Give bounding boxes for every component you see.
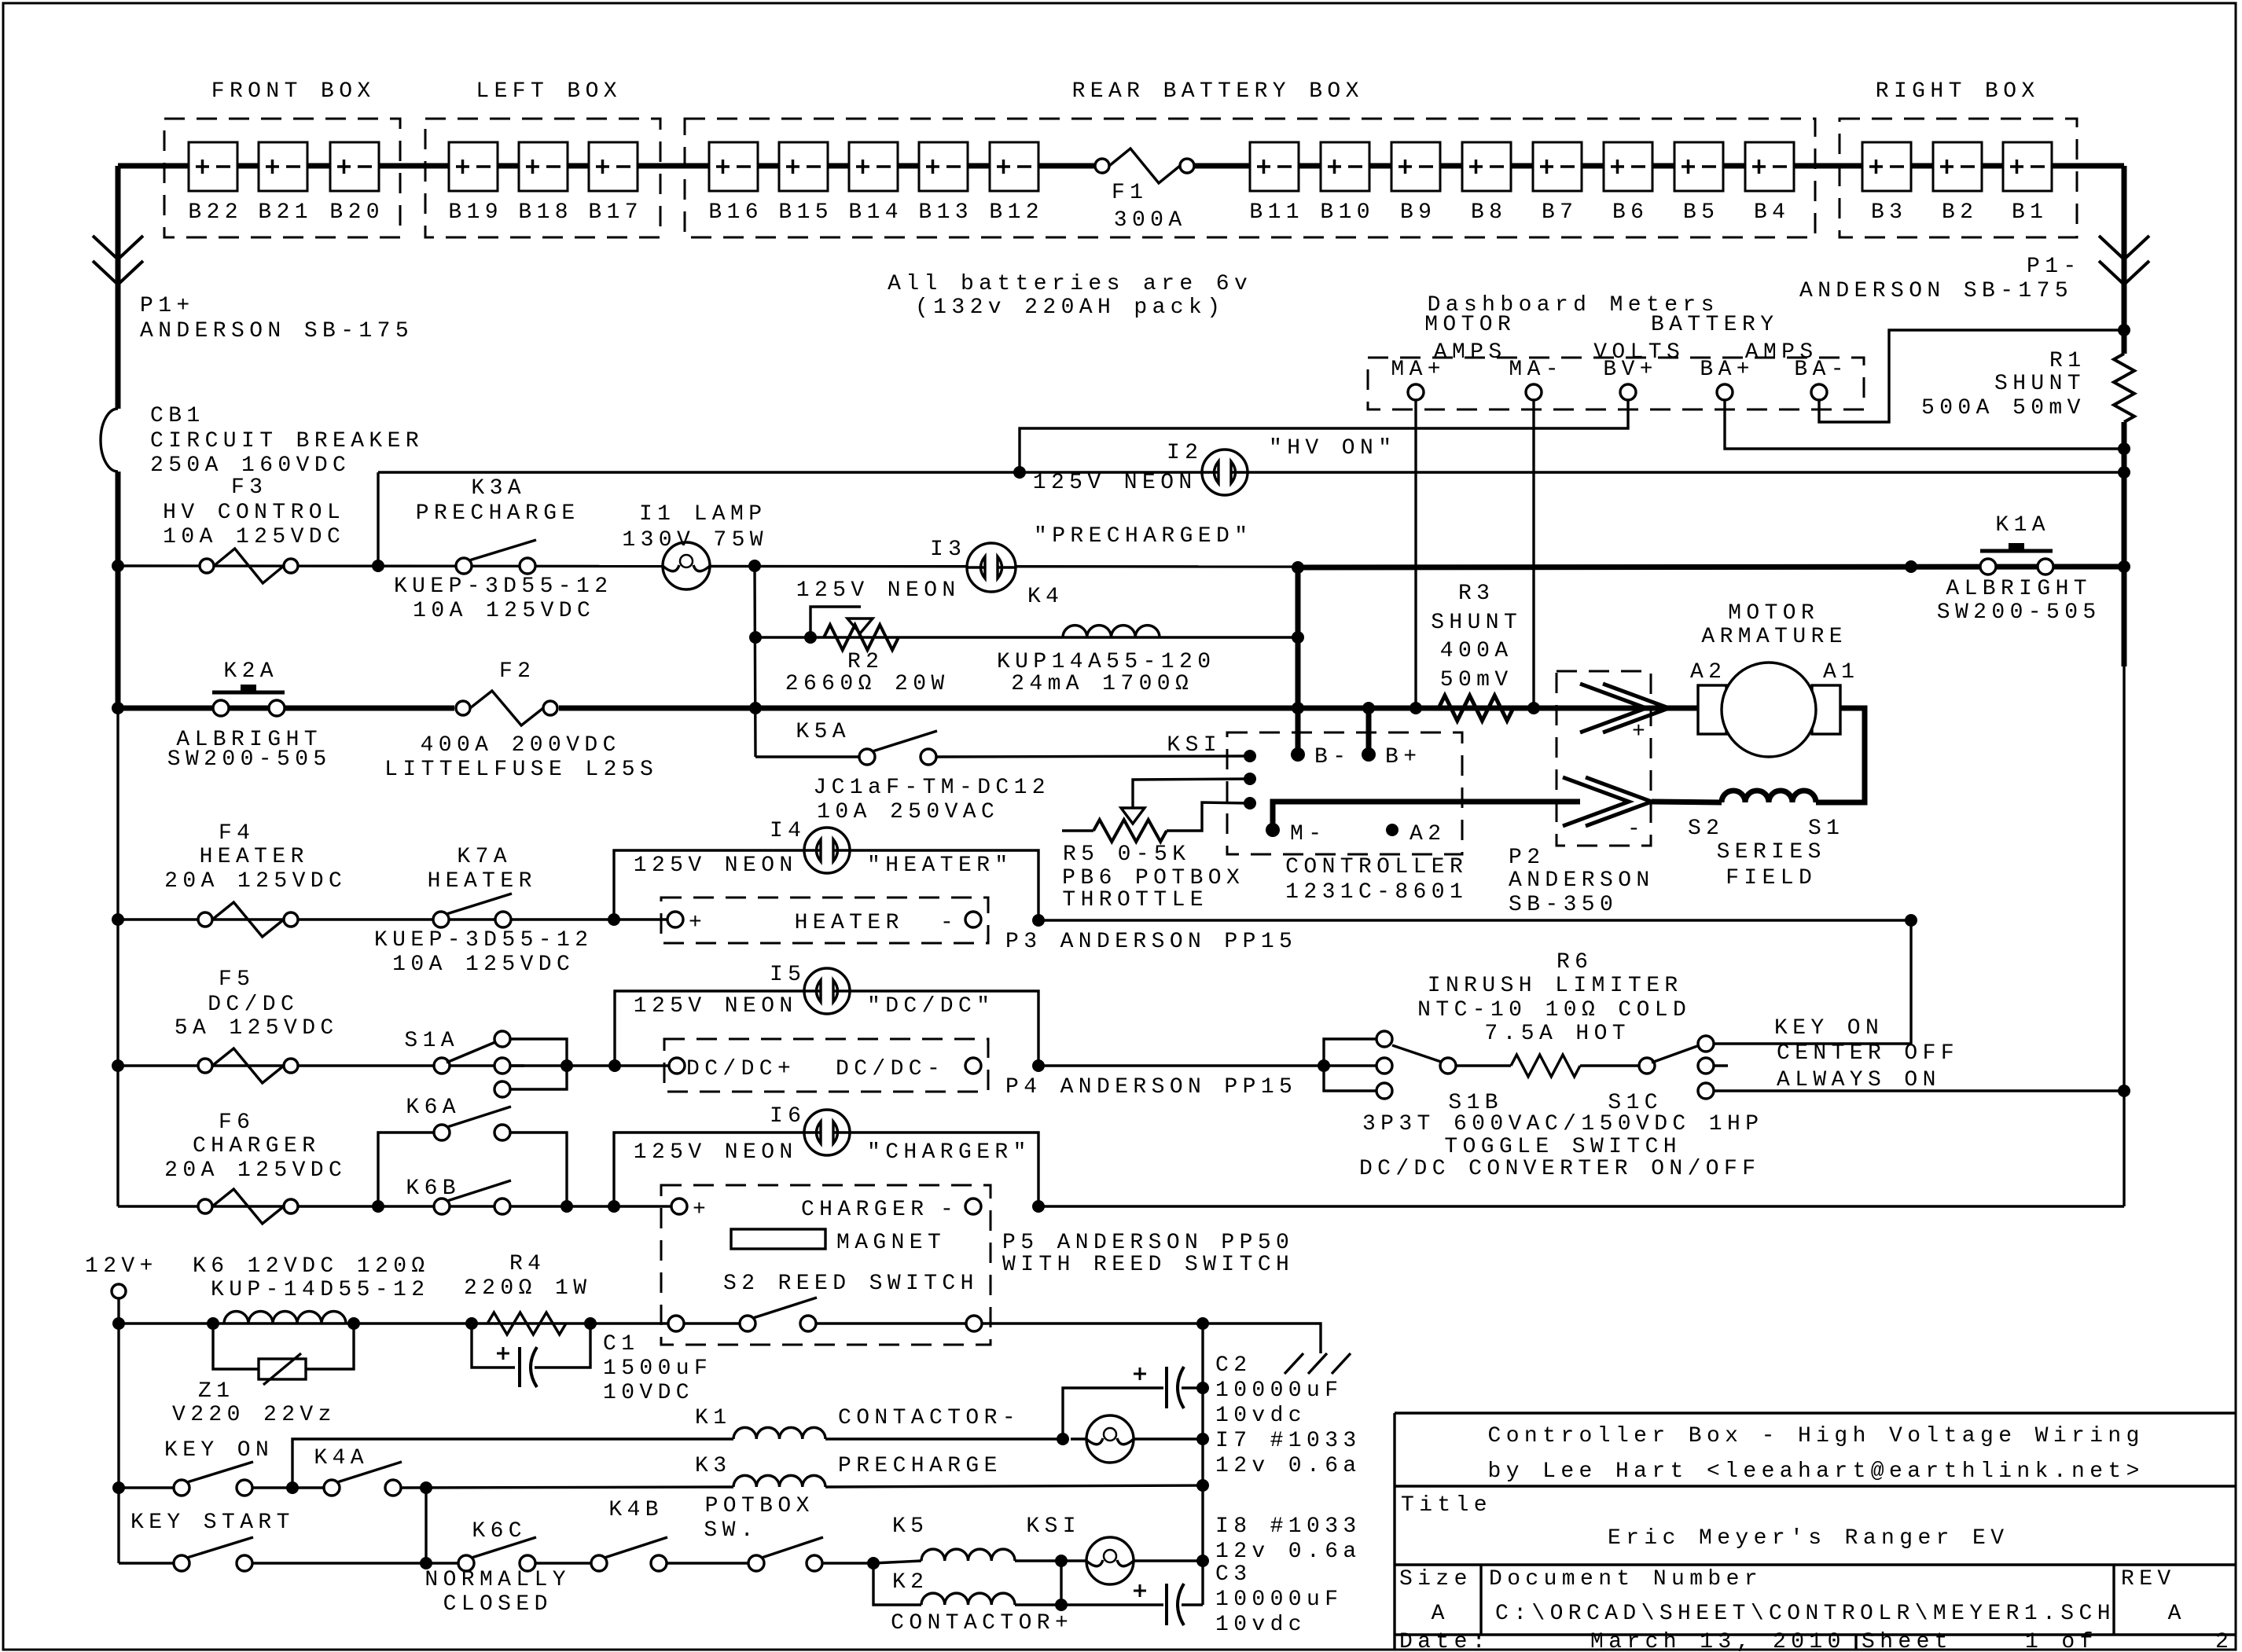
- capacitor C2 10000uF 10vdc: [1063, 1388, 1163, 1439]
- node charger return junction: [1032, 1200, 1045, 1213]
- svg-text:12v 0.6a: 12v 0.6a: [1215, 1540, 1362, 1564]
- node C2 branch junction: [1057, 1433, 1069, 1445]
- svg-text:S1: S1: [1808, 817, 1844, 841]
- svg-text:I1 LAMP: I1 LAMP: [639, 502, 766, 527]
- svg-text:JC1aF-TM-DC12: JC1aF-TM-DC12: [813, 776, 1050, 800]
- wire always-on feed: [1714, 1089, 2124, 1092]
- wire I5 neon loop: [615, 991, 1038, 1066]
- wire dcdc return to S1B: [1038, 1064, 1324, 1066]
- svg-text:2660Ω 20W: 2660Ω 20W: [785, 672, 950, 696]
- potentiometer R5 0-5K PB6 POTBOX THROTTLE: [1062, 829, 1093, 832]
- switch POTBOX SW.: [748, 1555, 764, 1571]
- dashed box FRONT BOX: [164, 119, 400, 237]
- svg-text:KUEP-3D55-12: KUEP-3D55-12: [374, 928, 593, 953]
- switch K4B: [591, 1555, 607, 1571]
- svg-text:B16: B16: [708, 200, 763, 225]
- svg-text:HEATER: HEATER: [200, 845, 309, 869]
- svg-text:-: -: [1627, 817, 1645, 842]
- svg-text:CHARGER: CHARGER: [801, 1198, 928, 1222]
- battery B3: [1862, 142, 1911, 191]
- magnet rectangle: [731, 1229, 825, 1249]
- switch S1C: [1652, 1045, 1700, 1063]
- node charger neon branch: [608, 1200, 620, 1213]
- terminal KSI pin: [1244, 750, 1256, 762]
- svg-text:K3: K3: [695, 1454, 731, 1478]
- svg-text:CENTER OFF: CENTER OFF: [1777, 1041, 1959, 1066]
- node B- crossing: [1292, 702, 1304, 714]
- lamp I7 #1033 12v 0.6a: [1071, 1437, 1086, 1440]
- node main row riser junction: [749, 702, 762, 714]
- svg-text:WITH REED SWITCH: WITH REED SWITCH: [1002, 1253, 1294, 1277]
- node K1A right bus junction: [2118, 560, 2130, 573]
- switch K4A: [324, 1480, 340, 1496]
- battery B8: [1462, 142, 1511, 191]
- node K4 row left junction: [749, 631, 762, 644]
- svg-text:B14: B14: [848, 200, 903, 225]
- svg-text:MOTOR: MOTOR: [1424, 313, 1516, 337]
- svg-text:RIGHT BOX: RIGHT BOX: [1876, 79, 2040, 104]
- svg-text:12v 0.6a: 12v 0.6a: [1215, 1454, 1362, 1478]
- switch K7A HEATER KUEP-3D55-12: [433, 912, 449, 927]
- ground symbol: [1285, 1353, 1303, 1374]
- svg-text:10A 125VDC: 10A 125VDC: [163, 525, 345, 549]
- switch K5A JC1aF-TM-DC12: [859, 749, 875, 765]
- svg-text:DC/DC-: DC/DC-: [836, 1057, 945, 1081]
- node K6 parallel junction: [560, 1200, 573, 1213]
- svg-text:I2: I2: [1167, 441, 1203, 465]
- svg-text:BA+: BA+: [1700, 358, 1755, 382]
- neon lamp I6 125V NEON: [804, 1110, 850, 1155]
- svg-text:B2: B2: [1942, 200, 1978, 225]
- svg-text:B12: B12: [989, 200, 1044, 225]
- terminal charger +: [671, 1199, 687, 1214]
- svg-text:R5 0-5K: R5 0-5K: [1063, 843, 1190, 867]
- svg-text:Date:: Date:: [1399, 1630, 1490, 1652]
- battery B20: [330, 142, 379, 191]
- svg-text:Sheet: Sheet: [1862, 1630, 1953, 1652]
- svg-text:K5A: K5A: [796, 720, 851, 744]
- wire I4 neon loop: [614, 850, 1038, 920]
- battery B5: [1674, 142, 1723, 191]
- svg-text:400A: 400A: [1440, 639, 1513, 663]
- svg-text:I7 #1033: I7 #1033: [1215, 1429, 1362, 1453]
- svg-text:2: 2: [2215, 1630, 2233, 1652]
- terminal charger -: [965, 1199, 981, 1214]
- wire heater row: [118, 918, 675, 920]
- wire main traction row: [118, 706, 1698, 711]
- svg-text:A2: A2: [1410, 822, 1446, 846]
- wire K4 row: [755, 636, 1298, 638]
- wire BA+ to R1 bottom: [1725, 400, 2124, 449]
- wire right bus vertical (thick): [2122, 166, 2127, 354]
- title block frame: [1395, 1412, 2236, 1414]
- svg-text:10VDC: 10VDC: [603, 1381, 694, 1405]
- svg-text:K2A: K2A: [223, 659, 278, 684]
- svg-text:ANDERSON SB-175: ANDERSON SB-175: [140, 319, 413, 343]
- battery B13: [919, 142, 968, 191]
- svg-text:B3: B3: [1871, 200, 1907, 225]
- svg-text:SW.: SW.: [704, 1518, 759, 1543]
- svg-text:SHUNT: SHUNT: [1431, 611, 1522, 635]
- svg-text:KUP-14D55-12: KUP-14D55-12: [211, 1278, 429, 1302]
- svg-text:10A 125VDC: 10A 125VDC: [392, 953, 575, 977]
- fuse F4 HEATER 20A 125VDC: [198, 912, 212, 927]
- wire left bus vertical (thin): [116, 708, 119, 1206]
- svg-text:CONTACTOR-: CONTACTOR-: [838, 1406, 1020, 1430]
- svg-text:B-: B-: [1314, 745, 1351, 769]
- node MA+ junction: [1410, 702, 1422, 714]
- svg-text:B4: B4: [1754, 200, 1790, 225]
- svg-text:KEY ON: KEY ON: [164, 1438, 274, 1463]
- svg-text:R3: R3: [1458, 582, 1494, 606]
- contactor contact K1A ALBRIGHT SW200-505: [1980, 549, 2053, 553]
- svg-text:1 of: 1 of: [2025, 1630, 2098, 1652]
- svg-text:ARMATURE: ARMATURE: [1701, 625, 1847, 649]
- svg-text:SERIES: SERIES: [1717, 840, 1826, 865]
- terminal heater +: [667, 912, 683, 927]
- lamp I1 130V 75W: [663, 542, 710, 589]
- lamp I8 #1033 12v 0.6a: [1086, 1537, 1134, 1584]
- svg-text:INRUSH LIMITER: INRUSH LIMITER: [1428, 974, 1683, 998]
- svg-text:125V NEON: 125V NEON: [634, 1140, 798, 1165]
- svg-text:B21: B21: [258, 200, 313, 225]
- svg-text:R2: R2: [847, 650, 884, 674]
- relay coil K1 CONTACTOR-: [733, 1427, 825, 1439]
- svg-text:F1: F1: [1112, 181, 1148, 205]
- contactor contact K2A ALBRIGHT SW200-505: [212, 691, 285, 695]
- svg-text:B18: B18: [518, 200, 573, 225]
- svg-text:7.5A HOT: 7.5A HOT: [1484, 1022, 1630, 1046]
- resistor R6 INRUSH LIMITER: [1440, 1058, 1456, 1074]
- svg-text:HEATER: HEATER: [428, 869, 537, 894]
- svg-text:ANDERSON SB-175: ANDERSON SB-175: [1799, 279, 2073, 303]
- node K4 row right junction: [1292, 631, 1304, 644]
- svg-text:K4A: K4A: [314, 1446, 369, 1470]
- resistor R2 rheostat 2660ohm 20W: [824, 625, 899, 650]
- svg-text:"CHARGER": "CHARGER": [867, 1140, 1031, 1165]
- svg-text:ALBRIGHT: ALBRIGHT: [1946, 577, 2092, 601]
- svg-text:MOTOR: MOTOR: [1728, 601, 1819, 626]
- svg-text:130V 75W: 130V 75W: [622, 528, 768, 553]
- svg-text:24mA 1700Ω: 24mA 1700Ω: [1011, 672, 1193, 696]
- node key start branch junction: [420, 1481, 432, 1494]
- svg-text:PB6 POTBOX: PB6 POTBOX: [1062, 866, 1244, 890]
- node reed output junction: [1196, 1317, 1209, 1330]
- terminal M- controller: [1266, 823, 1280, 837]
- svg-text:F2: F2: [499, 659, 535, 684]
- svg-text:K3A: K3A: [471, 476, 526, 501]
- svg-text:"HEATER": "HEATER": [867, 854, 1013, 878]
- dashed box dashboard meters: [1368, 358, 1864, 409]
- svg-text:K7A: K7A: [457, 845, 512, 869]
- svg-text:HEATER: HEATER: [795, 911, 904, 935]
- svg-text:Size: Size: [1399, 1567, 1472, 1591]
- wire MA- to R3 right: [1532, 400, 1534, 708]
- svg-text:C1: C1: [603, 1332, 639, 1356]
- node 12v row junction: [112, 1317, 125, 1330]
- terminal B- controller: [1291, 747, 1305, 762]
- node key-on riser top: [1905, 914, 1917, 927]
- svg-text:M-: M-: [1290, 822, 1326, 846]
- wire I6 neon loop: [614, 1133, 1038, 1206]
- node R1 bottom junctions: [2118, 442, 2130, 455]
- svg-text:I8 #1033: I8 #1033: [1215, 1514, 1362, 1539]
- wire M- thick: [1273, 802, 1580, 830]
- battery B14: [849, 142, 898, 191]
- node I8 output junction: [1196, 1555, 1209, 1567]
- wire 12v node line: [1201, 1323, 1204, 1605]
- wire heater return to key-on riser: [1038, 919, 1911, 921]
- terminal heater -: [965, 912, 981, 927]
- switch KEY ON: [112, 1481, 125, 1494]
- resistor R1 SHUNT 500A 50mV: [2114, 354, 2134, 422]
- svg-text:K6B: K6B: [406, 1177, 461, 1201]
- node dcdc return junction: [1032, 1059, 1045, 1072]
- svg-text:P3 ANDERSON PP15: P3 ANDERSON PP15: [1005, 930, 1297, 954]
- svg-text:I5: I5: [770, 963, 806, 987]
- node I1 output junction: [748, 560, 761, 572]
- svg-text:CONTROLLER: CONTROLLER: [1285, 855, 1468, 879]
- svg-text:B11: B11: [1249, 200, 1304, 225]
- node K5/K2 branch junction: [867, 1557, 880, 1569]
- svg-text:I4: I4: [770, 819, 806, 843]
- svg-text:20A 125VDC: 20A 125VDC: [164, 869, 347, 894]
- svg-text:20A 125VDC: 20A 125VDC: [164, 1158, 347, 1183]
- svg-text:B19: B19: [448, 200, 503, 225]
- wire F3 control row: [118, 566, 1298, 567]
- svg-text:I6: I6: [770, 1104, 806, 1129]
- node K1A branch junction: [1905, 560, 1917, 573]
- svg-text:All batteries are 6v: All batteries are 6v: [888, 272, 1252, 296]
- connector P1+ ANDERSON SB-175: [93, 236, 143, 259]
- svg-text:400A 200VDC: 400A 200VDC: [421, 733, 621, 758]
- battery B6: [1604, 142, 1652, 191]
- node heater return junction: [1032, 914, 1045, 927]
- svg-text:A2: A2: [1690, 660, 1726, 685]
- svg-text:DC/DC: DC/DC: [208, 993, 299, 1017]
- relay coil K4 KUP14A55-120: [1063, 626, 1160, 637]
- svg-text:F6: F6: [219, 1111, 255, 1135]
- motor armature brushes: [1698, 685, 1726, 734]
- node HV ON junction: [1013, 466, 1026, 479]
- svg-text:FRONT BOX: FRONT BOX: [211, 79, 376, 104]
- terminal 12V+: [112, 1284, 126, 1298]
- terminal DC/DC-: [965, 1058, 981, 1074]
- terminal DC/DC+: [669, 1058, 685, 1074]
- svg-text:SW200-505: SW200-505: [1937, 600, 2101, 625]
- wire K5A row: [755, 755, 867, 758]
- fuse F1 300A: [1094, 146, 1195, 185]
- svg-text:CB1: CB1: [150, 404, 205, 428]
- svg-text:3P3T 600VAC/150VDC 1HP: 3P3T 600VAC/150VDC 1HP: [1362, 1112, 1763, 1136]
- svg-text:10A 250VAC: 10A 250VAC: [817, 800, 999, 824]
- capacitor C1 1500uF 10VDC: [472, 1323, 515, 1367]
- capacitor C3 10000uF 10vdc: [1165, 1584, 1168, 1625]
- dashed box REAR BATTERY BOX: [685, 119, 1815, 237]
- svg-text:KEY ON: KEY ON: [1774, 1016, 1884, 1041]
- svg-text:NORMALLY: NORMALLY: [425, 1568, 571, 1592]
- battery B18: [519, 142, 568, 191]
- svg-text:REV: REV: [2121, 1567, 2176, 1591]
- connector P2 bottom chevron: [1563, 777, 1629, 826]
- switch S1A: [434, 1058, 450, 1074]
- relay coil K3 PRECHARGE: [733, 1475, 825, 1487]
- node K6A branch junction: [372, 1200, 384, 1213]
- battery B15: [779, 142, 828, 191]
- battery B19: [449, 142, 498, 191]
- wire to ground: [1203, 1323, 1321, 1353]
- svg-text:LITTELFUSE L25S: LITTELFUSE L25S: [384, 758, 658, 782]
- wire BV+ to HV node: [1020, 400, 1628, 472]
- svg-text:K6 12VDC 120Ω: K6 12VDC 120Ω: [193, 1254, 430, 1279]
- svg-text:F4: F4: [219, 821, 255, 846]
- svg-text:S2: S2: [1688, 817, 1724, 841]
- wire right bus vertical (thin): [2123, 666, 2125, 1206]
- switch K3A PRECHARGE: [456, 558, 472, 574]
- svg-text:A1: A1: [1823, 660, 1859, 685]
- wire battery bus top: [118, 163, 2124, 169]
- svg-text:B9: B9: [1400, 200, 1436, 225]
- node dcdc neon branch: [608, 1059, 621, 1072]
- connector P2 top chevron: [1580, 684, 1646, 732]
- wire left bus vertical (thick): [116, 166, 121, 409]
- svg-text:B15: B15: [778, 200, 833, 225]
- fuse F3 HV CONTROL 10A 125VDC: [200, 559, 214, 573]
- battery B4: [1745, 142, 1794, 191]
- svg-text:(132v 220AH pack): (132v 220AH pack): [915, 296, 1225, 320]
- svg-text:MAGNET: MAGNET: [836, 1231, 946, 1255]
- fuse F6 CHARGER 20A 125VDC: [198, 1199, 212, 1213]
- svg-text:ANDERSON: ANDERSON: [1509, 868, 1655, 893]
- svg-text:P1-: P1-: [2027, 255, 2082, 279]
- wire B- riser thick: [1296, 567, 1301, 754]
- battery B17: [589, 142, 638, 191]
- svg-text:B1: B1: [2012, 200, 2048, 225]
- svg-text:R4: R4: [509, 1252, 546, 1276]
- svg-text:by Lee Hart <leeahart@earthlin: by Lee Hart <leeahart@earthlink.net>: [1488, 1459, 2145, 1484]
- svg-text:B17: B17: [588, 200, 643, 225]
- svg-text:K4: K4: [1027, 585, 1064, 609]
- node always-on bus junction: [2118, 1085, 2130, 1097]
- svg-text:50mV: 50mV: [1440, 668, 1513, 692]
- battery B7: [1533, 142, 1582, 191]
- neon lamp I2 125V NEON: [1202, 450, 1248, 495]
- dashed box LEFT BOX: [425, 119, 660, 237]
- svg-text:C2: C2: [1215, 1353, 1251, 1378]
- svg-text:"PRECHARGED": "PRECHARGED": [1034, 524, 1252, 549]
- battery B1: [2003, 142, 2052, 191]
- svg-text:CLOSED: CLOSED: [443, 1592, 553, 1617]
- svg-text:B13: B13: [918, 200, 973, 225]
- svg-text:-: -: [940, 1198, 958, 1222]
- wire K1 coil row: [292, 1439, 733, 1488]
- svg-text:250A 160VDC: 250A 160VDC: [150, 453, 351, 478]
- svg-text:CIRCUIT BREAKER: CIRCUIT BREAKER: [150, 429, 424, 453]
- svg-text:B22: B22: [188, 200, 243, 225]
- svg-text:R6: R6: [1557, 950, 1593, 975]
- wire charger return to right bus: [1038, 1205, 2124, 1207]
- svg-text:DC/DC+: DC/DC+: [686, 1057, 796, 1081]
- svg-text:10A 125VDC: 10A 125VDC: [413, 599, 595, 623]
- svg-text:125V NEON: 125V NEON: [796, 578, 961, 603]
- svg-text:BATTERY: BATTERY: [1651, 313, 1778, 337]
- svg-text:BV+: BV+: [1603, 358, 1658, 382]
- node K5 output junction: [1055, 1555, 1068, 1567]
- wire B+ riser thick: [1366, 708, 1372, 754]
- svg-text:THROTTLE: THROTTLE: [1062, 888, 1208, 912]
- svg-text:V220 22Vz: V220 22Vz: [172, 1403, 336, 1427]
- svg-text:10000uF: 10000uF: [1215, 1379, 1343, 1403]
- switch S1B: [1324, 1039, 1376, 1091]
- battery B11: [1250, 142, 1299, 191]
- battery B22: [189, 142, 237, 191]
- wire BA- to R1 top: [1819, 330, 2124, 422]
- motor armature circle: [1722, 663, 1816, 757]
- svg-text:Eric Meyer's Ranger EV: Eric Meyer's Ranger EV: [1608, 1526, 2009, 1551]
- wire 12v bus: [117, 1298, 119, 1563]
- node I7 output junction: [1196, 1433, 1209, 1445]
- svg-text:KUP14A55-120: KUP14A55-120: [997, 650, 1215, 674]
- battery B2: [1933, 142, 1982, 191]
- resistor R4 220ohm 1W: [465, 1317, 478, 1330]
- node left bus main junction: [112, 702, 124, 714]
- svg-text:+: +: [693, 1198, 711, 1222]
- dashed box RIGHT BOX: [1840, 119, 2077, 237]
- svg-text:+: +: [1632, 720, 1650, 744]
- svg-text:HV CONTROL: HV CONTROL: [163, 501, 345, 525]
- svg-text:K1A: K1A: [1995, 513, 2050, 538]
- node K2 output junction: [1055, 1599, 1068, 1611]
- svg-text:FIELD: FIELD: [1726, 866, 1817, 890]
- svg-text:500A 50mV: 500A 50mV: [1921, 396, 2086, 420]
- wire K4A to key start: [425, 1488, 427, 1563]
- svg-text:12V+: 12V+: [85, 1254, 158, 1279]
- svg-text:B20: B20: [329, 200, 384, 225]
- svg-text:LEFT BOX: LEFT BOX: [476, 79, 622, 104]
- svg-text:"DC/DC": "DC/DC": [867, 994, 994, 1019]
- svg-text:P5 ANDERSON PP50: P5 ANDERSON PP50: [1002, 1231, 1294, 1255]
- svg-text:300A: 300A: [1114, 208, 1187, 233]
- svg-text:PRECHARGE: PRECHARGE: [838, 1454, 1002, 1478]
- node R1 top junction: [2118, 324, 2130, 336]
- fuse F5 DC/DC 5A 125VDC: [198, 1059, 212, 1073]
- svg-text:PRECHARGE: PRECHARGE: [416, 501, 580, 526]
- node R2 wiper junction: [804, 631, 817, 644]
- switch K6C NORMALLY CLOSED: [458, 1555, 474, 1571]
- switch S2 reed contacts: [668, 1316, 684, 1331]
- svg-text:B8: B8: [1471, 200, 1507, 225]
- node K1 branch junction: [286, 1481, 299, 1494]
- resistor R3 SHUNT 400A 50mV: [1439, 696, 1513, 721]
- svg-text:A: A: [1432, 1602, 1450, 1626]
- svg-text:Title: Title: [1401, 1493, 1492, 1518]
- svg-text:KEY START: KEY START: [130, 1511, 295, 1535]
- svg-text:+: +: [689, 911, 707, 935]
- svg-text:TOGGLE SWITCH: TOGGLE SWITCH: [1444, 1135, 1681, 1159]
- wire S1A pole stubs: [510, 1039, 567, 1089]
- dashed box controller 1231C-8601: [1227, 732, 1462, 854]
- wire MA+ to R3 left: [1414, 400, 1417, 708]
- node B+ junction: [1362, 702, 1375, 714]
- terminal controller pot wiper: [1244, 797, 1256, 809]
- wire chevron to field coil: [1652, 802, 1722, 802]
- svg-text:F5: F5: [219, 967, 255, 992]
- switch K6B: [434, 1199, 450, 1214]
- battery B12: [990, 142, 1038, 191]
- svg-text:MA-: MA-: [1509, 358, 1564, 382]
- svg-text:ALWAYS ON: ALWAYS ON: [1777, 1068, 1941, 1092]
- svg-text:K5: K5: [892, 1514, 928, 1539]
